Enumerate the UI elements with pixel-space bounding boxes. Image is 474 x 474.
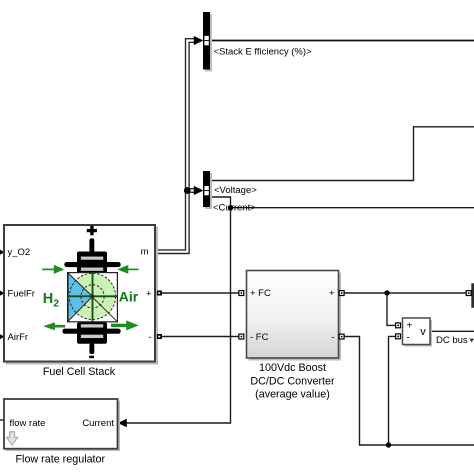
port square -FC: [239, 334, 244, 339]
svg-text:m: m: [141, 246, 149, 257]
fuel cell icon: bottom stem: [89, 343, 94, 354]
port square right block: [466, 291, 471, 296]
fuel cell icon: plus terminal: [87, 226, 97, 236]
svg-text:Flow rate regulator: Flow rate regulator: [15, 453, 105, 465]
junction on bus: [184, 187, 191, 194]
bus selector 2: [203, 171, 210, 207]
arrowhead into BusSelector1: [194, 36, 204, 45]
svg-text:flow rate: flow rate: [10, 418, 46, 429]
wire voltmeter v output: [430, 330, 474, 332]
stub wire y_O2 input: [0, 251, 4, 253]
bus selector 1 port squares: [204, 36, 208, 45]
port square voltmeter +: [396, 323, 401, 328]
fuel cell icon: bottom gray plate 1: [80, 324, 103, 328]
wire Current branch to right edge: [231, 207, 474, 209]
fuel cell icon: center dot: [91, 295, 95, 299]
stub wire FuelFr input: [0, 292, 4, 294]
svg-text:<Stack E fficiency (%)>: <Stack E fficiency (%)>: [214, 47, 312, 58]
svg-text:+: +: [329, 288, 335, 299]
block voltage measurement shadow: [405, 320, 433, 347]
fuel cell icon: minus terminal: [89, 356, 94, 359]
port square stack +: [157, 291, 162, 296]
wire Stack Efficiency output: [210, 40, 474, 42]
wire converter - to bottom rail: [344, 337, 474, 446]
bus selector 1 shadow: [205, 14, 212, 72]
port square stack -: [157, 334, 162, 339]
svg-text:-: -: [148, 332, 151, 343]
svg-text:-: -: [407, 332, 410, 343]
block Flow rate regulator: [4, 399, 118, 449]
block Flow rate regulator shadow: [6, 401, 121, 452]
wire stack + to converter +FC: [156, 292, 239, 294]
svg-text:<Voltage>: <Voltage>: [214, 185, 257, 196]
bus selector 2 shadow: [205, 173, 212, 209]
port square voltmeter -: [396, 334, 401, 339]
fuel cell icon: arrow bottom-right: [111, 320, 139, 330]
block converter shadow: [249, 273, 342, 361]
svg-text:100Vdc Boost: 100Vdc Boost: [259, 362, 326, 374]
stub wire flow rate output: [0, 419, 4, 421]
icon gray triangle: [7, 432, 18, 446]
junction bottom rail: [386, 442, 391, 447]
block Fuel Cell Stack: [4, 225, 155, 362]
junction + rail: [384, 290, 389, 295]
label DC bus: [436, 335, 474, 346]
svg-text:+: +: [146, 289, 152, 300]
svg-text:Fuel Cell Stack: Fuel Cell Stack: [43, 366, 116, 378]
wire Current output: [119, 197, 231, 423]
port square + out: [339, 291, 344, 296]
bus selector 1: [203, 12, 210, 70]
fuel cell icon: top wide bar: [64, 262, 120, 267]
svg-text:+ FC: + FC: [250, 288, 271, 299]
fuel cell icon: arrow top-right: [117, 265, 138, 274]
block Fuel Cell Stack shadow: [6, 227, 159, 365]
port square - out: [339, 334, 344, 339]
wire to voltmeter +: [387, 293, 396, 325]
arrowhead into Flow rate regulator Current port: [118, 419, 127, 428]
fuel cell icon: top stem: [89, 238, 94, 253]
fuel cell icon: arrow top-left: [42, 265, 64, 274]
fuel cell icon: diagonal: [68, 273, 117, 321]
svg-text:Current: Current: [82, 418, 114, 429]
stub wire AirFr input: [0, 336, 4, 338]
svg-text:+: +: [407, 320, 413, 331]
block 100Vdc Boost DC/DC Converter: [247, 271, 339, 359]
fuel cell icon: bottom wide bar: [63, 329, 121, 334]
svg-text:-: -: [331, 332, 334, 343]
bus selector 2 port squares: [204, 186, 208, 195]
fuel cell icon: inner dashed circle: [81, 285, 104, 308]
wire bus m to bus selectors (double line): [156, 41, 196, 252]
svg-text:v: v: [420, 326, 426, 338]
wire stack - to converter -FC: [156, 336, 239, 338]
block right edge cropped: [471, 283, 474, 308]
arrowhead into BusSelector2: [194, 186, 204, 195]
caption converter: [250, 362, 335, 400]
fuel cell icon: green circle: [69, 273, 115, 319]
svg-text:- FC: - FC: [250, 332, 269, 343]
fuel cell icon: bottom gray plate 2: [80, 334, 103, 338]
junction Current branch: [228, 205, 233, 210]
fuel cell icon: top gray plate 1: [80, 256, 103, 260]
svg-text:Air: Air: [119, 288, 139, 304]
fuel cell icon: crosshair: [68, 273, 117, 322]
fuel cell icon: bottom electrode block: [77, 322, 107, 344]
block voltage measurement: [403, 318, 431, 345]
fuel cell icon: arrow bottom-left: [43, 322, 65, 330]
wire voltmeter - down: [389, 336, 396, 445]
fuel cell icon: top gray plate 2: [80, 267, 103, 271]
svg-text:FuelFr: FuelFr: [8, 288, 35, 299]
svg-text:DC bus: DC bus: [436, 335, 468, 346]
svg-text:(average value): (average value): [255, 389, 330, 401]
svg-text:AirFr: AirFr: [8, 332, 29, 343]
fuel cell icon: circle dashed outline: [69, 273, 115, 319]
svg-text:y_O2: y_O2: [8, 247, 31, 258]
port square +FC: [239, 291, 244, 296]
wire Voltage output: [210, 127, 474, 181]
fuel cell icon: top electrode block: [77, 252, 107, 274]
fuel cell icon: blue wedge: [68, 273, 92, 321]
svg-text:DC/DC Converter: DC/DC Converter: [250, 375, 335, 387]
svg-text:<Current>: <Current>: [213, 203, 256, 214]
fuel cell icon: membrane square: [68, 273, 118, 322]
wire converter + output rail: [344, 292, 466, 294]
